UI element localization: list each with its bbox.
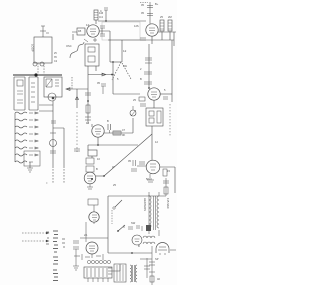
coil box L2: [14, 77, 25, 110]
wire V3 to T2: [153, 100, 155, 108]
svg-text:12: 12: [123, 49, 127, 53]
IF amp tube V3: [148, 88, 160, 100]
volume pot VR1: [130, 110, 136, 116]
parts list word stack: [53, 231, 58, 281]
chassis ganging bar: [13, 74, 62, 76]
svg-text:B: B: [138, 244, 140, 248]
wire socket right: [112, 264, 120, 271]
output tube V6: [146, 160, 160, 174]
ground marks below V5: [87, 184, 93, 189]
ground left: [73, 266, 79, 270]
svg-text:1B: 1B: [78, 29, 81, 33]
oscillator coil circle: [48, 93, 56, 101]
svg-text:C: C: [100, 9, 102, 13]
wire vertical osc feed: [52, 101, 54, 168]
coupling cap right of V4: [108, 124, 111, 130]
svg-text:0K: 0K: [122, 133, 125, 137]
filter choke: [132, 235, 142, 245]
svg-text:B: B: [96, 167, 98, 171]
heater line above V8: [80, 237, 108, 239]
wire T1 bottom to AVC line: [88, 66, 96, 75]
pins below socket: [88, 278, 108, 282]
plate resistor R1: [94, 10, 98, 20]
coil L3 winding marks: [31, 83, 35, 102]
tuning gang assembly box: [44, 77, 62, 97]
wire junction down: [113, 62, 140, 94]
mains row parts: [118, 225, 125, 231]
grid resistor R5: [113, 131, 121, 135]
svg-text:LOOP: LOOP: [31, 44, 35, 52]
B+ bus horizontal: [108, 39, 174, 41]
screen dropper vertical: [121, 40, 123, 62]
wire to grid box: [72, 32, 77, 40]
resistor stack below: [88, 150, 97, 156]
trimmer capacitor C1: [33, 62, 37, 66]
coil L2 padding winding: [17, 80, 23, 86]
grid feed vertical with parts: [88, 75, 92, 127]
wire T2 secondary down: [151, 126, 153, 160]
wire V3 right to bus: [160, 93, 172, 95]
cap pair near 113: [101, 84, 106, 94]
cathode cap marks: [140, 38, 146, 40]
band switch ladder S1: [15, 112, 40, 166]
switch arm dashes: [112, 62, 121, 80]
switch frame box: [24, 151, 40, 166]
svg-text:2M: 2M: [168, 15, 172, 19]
power transformer T3: [148, 195, 150, 231]
wire V4 plate right: [104, 118, 133, 133]
plate feed caps above V2: [147, 2, 153, 24]
trimmer box with arrow: [46, 79, 52, 87]
svg-text:B: B: [140, 77, 142, 81]
small note marks left of list: [46, 232, 65, 247]
screen resistor right: [163, 169, 167, 176]
AVC bus line with arrow: [88, 73, 114, 76]
heater chain circles: [87, 260, 90, 263]
antenna lead dashes: [40, 26, 49, 37]
cathode marks below V1: [84, 38, 97, 42]
diode tube V5: [84, 172, 96, 184]
ladder left rail: [14, 113, 16, 162]
svg-text:HEATERS: HEATERS: [143, 198, 147, 211]
wire R1 to tube: [95, 20, 97, 24]
socket strip box: [84, 267, 112, 278]
mains switch: [113, 207, 115, 209]
grid cap C5: [104, 8, 108, 21]
det tube V4: [92, 125, 104, 137]
osc tube V2 top right: [146, 24, 158, 36]
wire V1 plate right: [99, 31, 110, 62]
grid squiggle wire: [70, 42, 84, 58]
first AF tube V7: [89, 212, 99, 222]
gang section ticks: [55, 80, 59, 86]
IF transformer T2: [146, 108, 163, 126]
rotated transformer labels: [31, 44, 171, 211]
screen resistor R2: [160, 20, 164, 31]
speaker: [156, 243, 169, 254]
B line bottom: [108, 252, 152, 254]
converter tube V1: [87, 25, 99, 37]
output transformer: [114, 264, 126, 282]
long grid wire: [98, 20, 146, 22]
IF transformer T1: [85, 44, 99, 66]
padder marks on vertical: [50, 121, 56, 133]
svg-text:SW: SW: [131, 221, 136, 225]
svg-text:SP: SP: [155, 257, 159, 261]
rect tube V8: [86, 242, 98, 254]
ground below ladder: [27, 162, 33, 172]
component value labels: [46, 2, 172, 281]
capacitor on vertical: [50, 151, 56, 153]
dashed shaft lines below: [53, 169, 64, 184]
svg-text:12: 12: [86, 23, 90, 27]
svg-text:12S: 12S: [134, 24, 139, 28]
wires from coil box to osc line: [39, 105, 53, 111]
wire V5 right to diagonal: [96, 175, 104, 177]
caps inside shield: [100, 26, 105, 36]
wires R2 R3 to bus: [158, 32, 176, 46]
parts row below V8: [74, 254, 103, 260]
AVC line with arrow: [66, 88, 88, 91]
svg-text:C4: C4: [99, 15, 103, 19]
svg-text:OSC: OSC: [66, 44, 72, 48]
svg-text:50L6: 50L6: [146, 177, 152, 181]
AF line horizontal: [88, 144, 138, 146]
wire second vertical: [53, 128, 64, 168]
caps left of V8: [73, 241, 79, 266]
svg-text:115 VAC: 115 VAC: [166, 198, 170, 209]
plate resistor R3: [168, 20, 172, 31]
B+ rail to power area: [108, 195, 166, 197]
marks below V6: [147, 174, 154, 182]
filter caps verticals: [144, 258, 150, 278]
grid box component: [77, 28, 85, 35]
svg-text:2A: 2A: [84, 233, 87, 237]
plate wire right of V6: [160, 167, 175, 193]
cathode chain below V6: [163, 178, 169, 196]
trimmer capacitor C2: [40, 62, 44, 66]
svg-text:B+: B+: [155, 2, 159, 6]
wire dashed from L1 to chassis bar: [38, 63, 44, 74]
caps left of V6: [131, 160, 146, 171]
grid resistor cluster left of V3: [139, 97, 145, 101]
diagonal switch wire: [104, 134, 152, 176]
junction blob on bar: [34, 73, 37, 76]
long vertical shield wire: [76, 89, 79, 108]
wire V2 cathode down: [149, 36, 152, 88]
right hand B bus vertical: [171, 40, 173, 102]
dashed shield line: [71, 77, 73, 89]
coupling coil circle: [50, 140, 57, 147]
dial lamp dashed leads: [22, 233, 46, 241]
svg-text:B: B: [107, 119, 109, 123]
antenna coil can L1: [34, 37, 52, 63]
coil box L3: [29, 77, 38, 110]
wire V4 cathode down: [97, 137, 99, 145]
shield box faint: [102, 22, 140, 40]
